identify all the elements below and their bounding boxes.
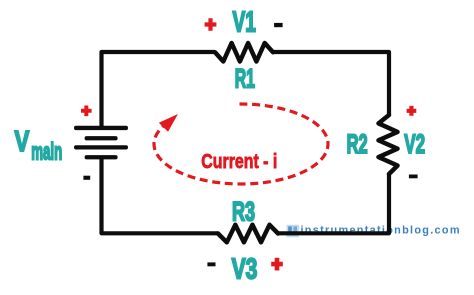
battery - polarity mark [83, 176, 90, 180]
wire bottom-left segment (R3 to corner up to battery) [102, 159, 219, 233]
polarity + of V3 [271, 258, 283, 271]
wire top-left segment (corner to R1) [102, 52, 216, 127]
svg-text:R2: R2 [347, 129, 368, 159]
wire right-bottom segment (R2 to bottom corner to R3) [278, 174, 389, 233]
battery Vmain plate 2 (short) [85, 136, 118, 140]
polarity - of V2 [409, 175, 418, 179]
current loop dashed arc [154, 104, 328, 184]
svg-text:R3: R3 [232, 196, 255, 226]
svg-text:R1: R1 [235, 63, 255, 93]
polarity - of V3 [207, 262, 215, 266]
svg-text:V1: V1 [233, 6, 256, 38]
polarity + of V2 [407, 106, 417, 116]
watermark icon [287, 225, 300, 237]
wire top-right segment (R1 to right corner) [273, 52, 389, 115]
svg-text:V: V [15, 126, 30, 158]
battery Vmain plate 4 (short) [85, 155, 118, 159]
svg-text:V2: V2 [404, 129, 425, 159]
battery + polarity mark [81, 106, 92, 117]
battery Vmain plate 1 (long, +) [74, 126, 128, 130]
resistor R1 [215, 43, 273, 62]
resistor R3 [218, 225, 278, 243]
current direction arrowhead [159, 114, 178, 132]
resistor R2 [379, 115, 398, 174]
battery Vmain plate 3 (long) [74, 145, 128, 149]
svg-text:V3: V3 [232, 253, 258, 285]
polarity + of V1 [205, 18, 217, 31]
svg-text:main: main [31, 139, 62, 166]
svg-text:Current - i: Current - i [201, 150, 277, 173]
polarity - of V1 [274, 23, 283, 27]
